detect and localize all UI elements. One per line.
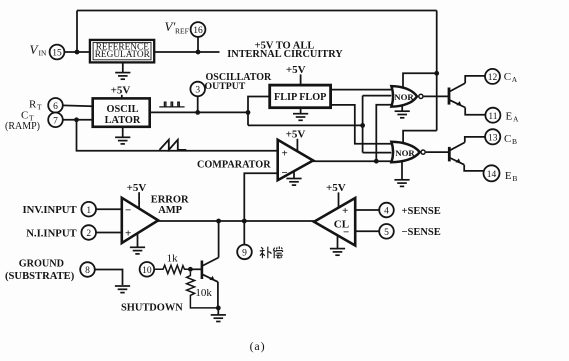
svg-text:6: 6: [53, 102, 58, 112]
wire NOR U1 output to transistor QA base: [424, 95, 449, 97]
svg-text:AMP: AMP: [158, 205, 182, 216]
svg-text:−: −: [125, 205, 131, 217]
svg-text:+SENSE: +SENSE: [402, 206, 441, 217]
svg-text:B: B: [512, 137, 517, 146]
svg-text:FLIP FLOP: FLIP FLOP: [274, 92, 326, 103]
svg-text:1: 1: [86, 206, 91, 216]
svg-text:A: A: [513, 114, 519, 123]
svg-text:COMPARATOR: COMPARATOR: [197, 159, 271, 170]
wire Vref node to pin16: [197, 37, 199, 52]
transistor QB: [449, 142, 465, 164]
wire CL plus input to pin4: [355, 209, 379, 211]
svg-text:15: 15: [52, 49, 62, 59]
svg-text:+5V: +5V: [326, 182, 346, 194]
wire emitter node to ground: [217, 308, 219, 315]
clock pulses waveform: [159, 102, 184, 107]
svg-text:+: +: [282, 148, 288, 160]
svg-text:(SUBSTRATE): (SUBSTRATE): [5, 271, 75, 282]
CL amp U8: [314, 198, 355, 246]
svg-text:OSCIL: OSCIL: [106, 104, 138, 115]
svg-text:LATOR: LATOR: [105, 115, 141, 126]
wire flip flop Q to NOR U1: [331, 89, 392, 91]
svg-text:2: 2: [86, 229, 91, 239]
pin 16: [191, 22, 206, 37]
wire Q1 collector to error amp output node: [218, 221, 220, 258]
svg-text:+5V: +5V: [286, 128, 306, 140]
error amp U7: [122, 198, 158, 243]
svg-text:C: C: [504, 133, 511, 145]
svg-text:4: 4: [384, 207, 389, 217]
svg-text:A: A: [512, 75, 518, 84]
pin 4: [379, 203, 394, 218]
wire +5V to CL amp: [338, 192, 340, 207]
pin 12: [485, 69, 500, 84]
wire comparator output to NOR U1 input: [376, 105, 391, 162]
svg-text:IN: IN: [39, 49, 47, 58]
transistor QA: [449, 83, 465, 107]
wire pin6 to oscillator: [63, 104, 93, 107]
ground shutdown: [211, 315, 226, 322]
pin 11: [485, 108, 500, 123]
node comparator output branch: [374, 159, 379, 164]
pin 2: [81, 225, 96, 240]
pin 9: [237, 245, 252, 260]
wire branch to NOR U1 top input: [403, 73, 437, 86]
ground below NOR U1: [401, 106, 403, 111]
svg-text:B: B: [512, 174, 517, 183]
wire pin3 down to oscillator output: [197, 96, 199, 112]
node pin7 ramp junction: [74, 117, 79, 122]
svg-text:ERROR: ERROR: [151, 195, 189, 206]
svg-text:3: 3: [195, 86, 200, 96]
pin 15: [50, 45, 65, 60]
svg-text:T: T: [37, 103, 42, 112]
pin 13: [485, 129, 500, 144]
wire QA collector to pin12: [465, 76, 485, 83]
svg-text:INTERNAL CIRCUITRY: INTERNAL CIRCUITRY: [227, 49, 343, 60]
wire pin2 to error amp: [96, 232, 122, 234]
node oscillator output branch: [246, 110, 251, 115]
ground below reference regulator: [122, 63, 124, 73]
wire blanking to NOR U1 input: [363, 95, 392, 97]
wire blanking line: [248, 124, 363, 126]
wire comparator inverting input: [244, 173, 277, 221]
node error amp output / shutdown: [216, 219, 221, 224]
reference regulator U3: [90, 40, 154, 63]
svg-text:SHUTDOWN: SHUTDOWN: [121, 302, 183, 313]
node Vin junction: [75, 50, 80, 55]
svg-text:8: 8: [85, 266, 90, 276]
svg-text:N.I.INPUT: N.I.INPUT: [26, 227, 76, 239]
wire +5V to oscillator: [121, 95, 123, 99]
svg-text:R: R: [29, 99, 37, 111]
node oscillator output pin3: [195, 110, 200, 115]
svg-text:14: 14: [487, 170, 497, 180]
svg-text:9: 9: [242, 249, 247, 259]
svg-text:+: +: [125, 228, 131, 240]
svg-text:E: E: [505, 170, 512, 182]
wire pin1 to error amp: [96, 208, 122, 210]
wire pin8 to ground: [95, 270, 123, 286]
svg-text:12: 12: [488, 73, 498, 83]
wire flip flop Qbar to NOR U2: [331, 105, 392, 144]
pin 5: [379, 224, 394, 239]
wire pin15 to regulator: [64, 51, 91, 53]
wire +5V to comparator: [296, 139, 298, 152]
svg-text:+5V: +5V: [127, 182, 147, 194]
label compensation (Chinese): [260, 246, 283, 258]
wire QB emitter to pin14: [464, 165, 483, 171]
ground below NOR U2: [401, 162, 403, 180]
svg-text:7: 7: [53, 116, 58, 126]
svg-text:+5V: +5V: [111, 84, 131, 96]
svg-text:11: 11: [488, 112, 497, 122]
pin 1: [81, 202, 96, 217]
wire comparator output: [313, 160, 391, 162]
wire NOR U2 output to transistor QB base: [426, 151, 450, 153]
svg-text:+: +: [342, 205, 348, 217]
wire compensation node to pin9: [243, 221, 245, 245]
ground below flip flop: [300, 108, 302, 114]
svg-text:C: C: [21, 110, 28, 122]
svg-text:OUTPUT: OUTPUT: [205, 81, 246, 92]
ground below CL amp: [337, 235, 339, 248]
pin 6: [48, 98, 63, 113]
svg-text:−: −: [282, 167, 288, 179]
wire osc output to flip flop: [248, 97, 270, 126]
resistor 1k: [154, 265, 190, 273]
wire top rail left drop to Vin node: [76, 11, 78, 53]
svg-text:5: 5: [384, 228, 389, 238]
svg-text:13: 13: [488, 133, 498, 143]
NOR gate U1: [391, 86, 423, 107]
wire +5V to error amp: [138, 192, 140, 208]
wire QB collector to pin13: [465, 137, 485, 143]
wire ramp to comparator: [77, 120, 278, 151]
svg-text:+5V: +5V: [286, 64, 306, 76]
svg-text:REF: REF: [175, 27, 189, 36]
flip flop U5: [270, 85, 331, 108]
wire blanking to NOR U2 input: [363, 152, 392, 154]
pin 10: [140, 262, 155, 277]
wire pin7 to oscillator: [63, 119, 93, 121]
svg-text:(RAMP): (RAMP): [5, 121, 40, 132]
wire error amp output to CL amp: [158, 220, 314, 222]
sawtooth waveform: [160, 140, 187, 150]
svg-text:−SENSE: −SENSE: [402, 227, 441, 238]
svg-text:GROUND: GROUND: [19, 258, 64, 269]
svg-text:10k: 10k: [195, 287, 212, 299]
comparator U6: [278, 140, 313, 180]
svg-text:E: E: [506, 110, 513, 122]
pin 8: [80, 262, 95, 277]
wire CL minus input to pin5: [355, 230, 379, 232]
wire +5V to flip flop: [300, 74, 302, 85]
svg-text:NOR: NOR: [394, 92, 414, 102]
svg-text:16: 16: [193, 26, 203, 36]
node blanking junction: [360, 123, 365, 128]
node shutdown base: [188, 267, 193, 272]
ground pin8: [115, 286, 130, 293]
wire Q1 emitter down: [217, 282, 219, 308]
node Q1 emitter ground: [216, 306, 221, 311]
ground below error amp: [137, 233, 139, 247]
svg-text:V′: V′: [165, 19, 176, 34]
wire top rail: [77, 10, 437, 12]
wire top rail right drop: [436, 11, 438, 131]
wire blanking vertical to NOR gates: [362, 96, 364, 153]
node junction top rail / NOR U1 branch: [434, 71, 439, 76]
oscillator U4: [93, 98, 150, 126]
svg-text:1k: 1k: [167, 253, 179, 265]
svg-text:INV.INPUT: INV.INPUT: [23, 204, 77, 216]
wire QA emitter to pin11: [465, 108, 485, 115]
wire branch to NOR U2 top input: [403, 131, 437, 142]
pin 14: [484, 165, 500, 181]
wire regulator to Vref node: [154, 51, 219, 53]
NOR gate U2: [391, 142, 425, 162]
wire oscillator output: [150, 111, 248, 113]
pin 3: [190, 82, 205, 97]
pin 7: [48, 113, 63, 128]
ground below oscillator: [122, 127, 124, 137]
svg-text:(a): (a): [250, 339, 266, 353]
svg-text:REGULATOR: REGULATOR: [95, 50, 151, 60]
node error amp output / compensation: [242, 219, 247, 224]
resistor 10k: [187, 272, 219, 308]
svg-text:−: −: [343, 226, 349, 238]
svg-text:NOR: NOR: [395, 148, 415, 158]
wire base node to transistor Q1: [190, 268, 202, 270]
node Vref: [196, 50, 201, 55]
svg-text:10: 10: [142, 266, 152, 276]
ground below comparator: [293, 171, 295, 178]
svg-text:C: C: [504, 71, 511, 83]
transistor Q1 shutdown: [202, 258, 219, 282]
